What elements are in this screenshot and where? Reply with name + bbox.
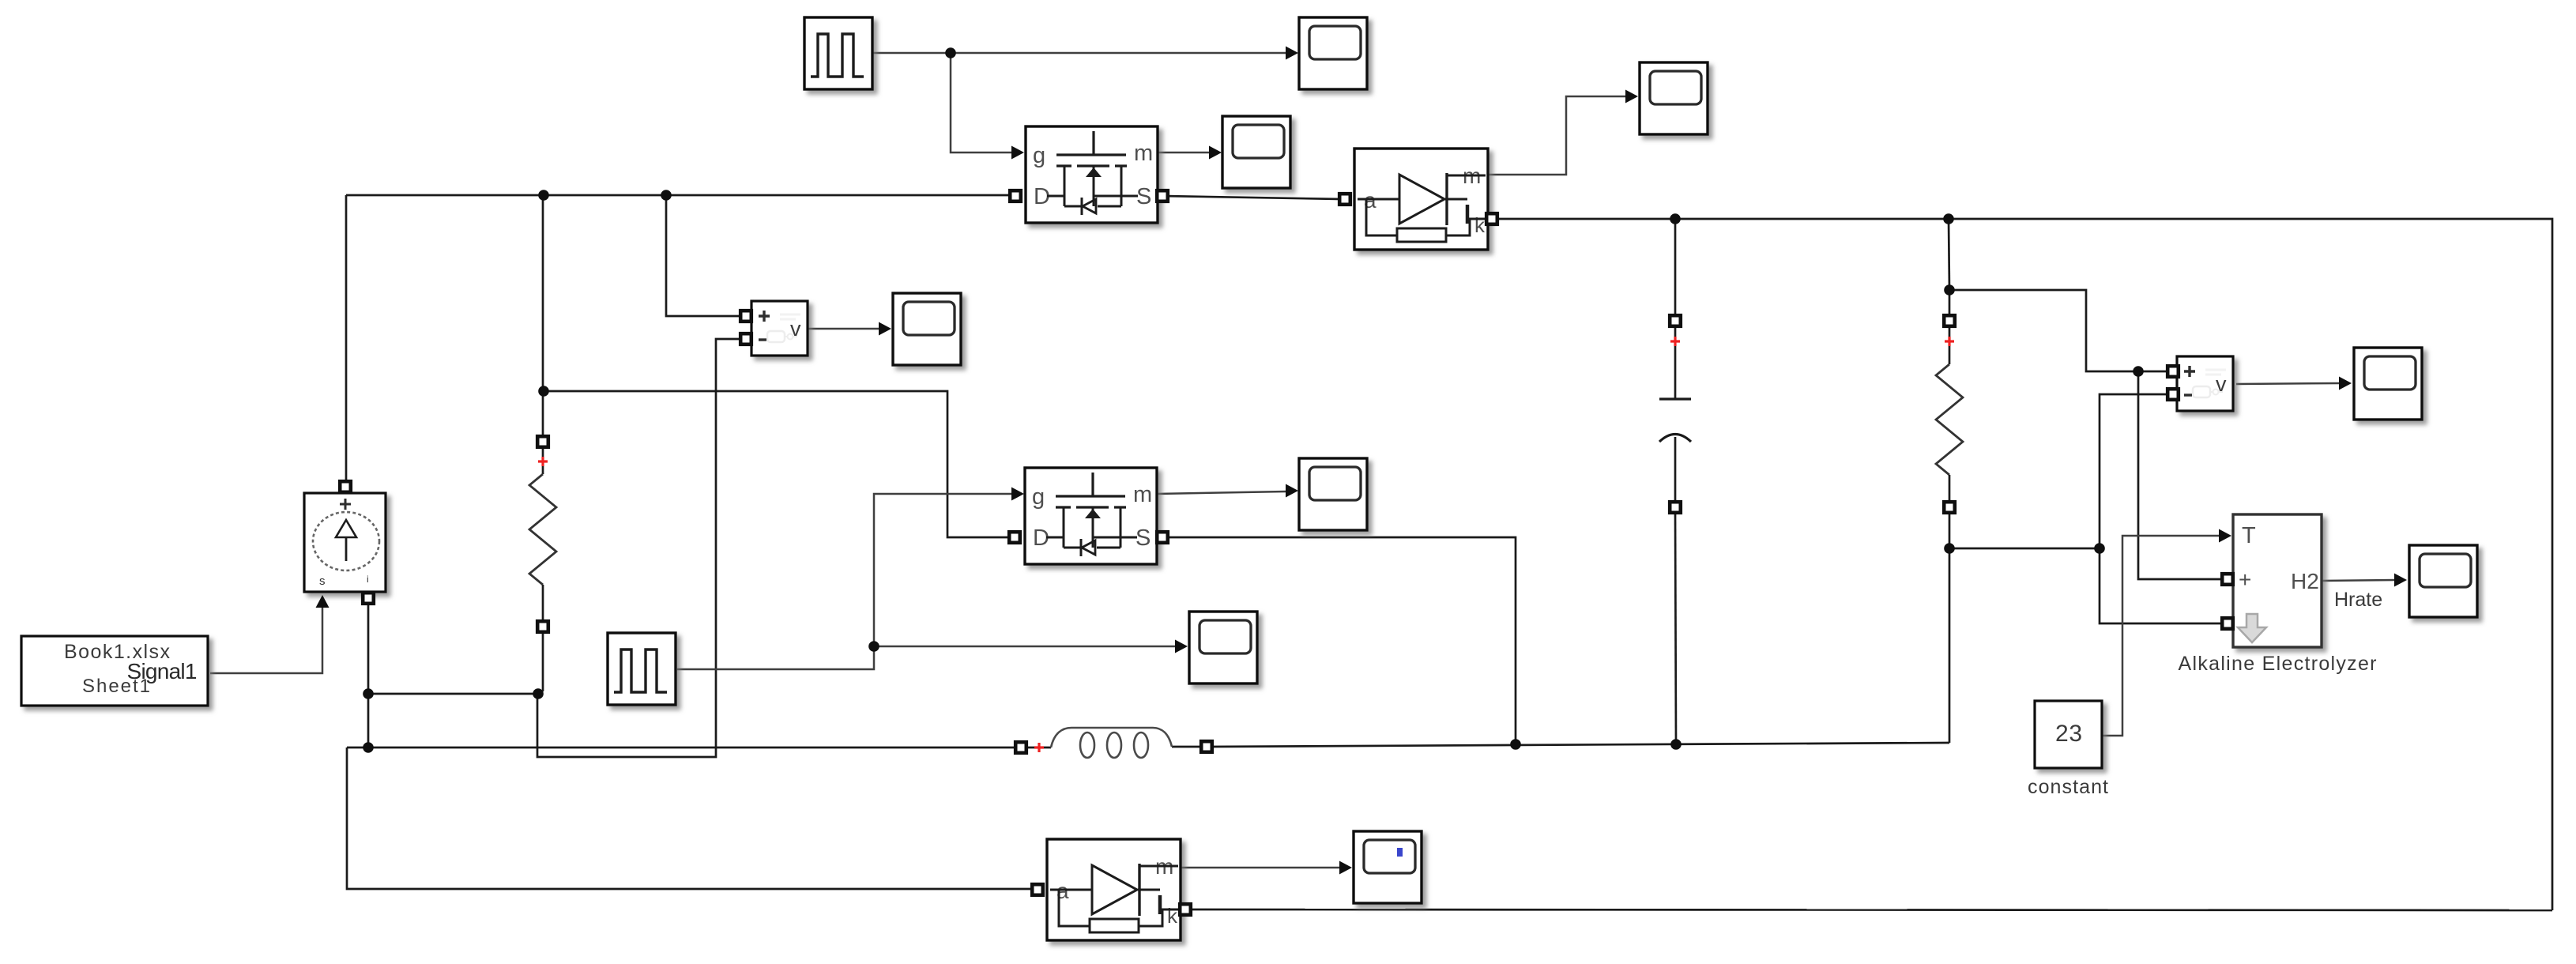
svg-text:H2: H2	[2291, 569, 2319, 593]
svg-text:23: 23	[2055, 721, 2082, 747]
svg-text:Hrate: Hrate	[2334, 589, 2382, 611]
svg-text:s: s	[319, 574, 326, 588]
svg-text:+: +	[2239, 567, 2251, 592]
svg-text:constant: constant	[2028, 776, 2108, 798]
svg-text:Alkaline Electrolyzer: Alkaline Electrolyzer	[2179, 653, 2377, 675]
svg-text:T: T	[2242, 523, 2256, 548]
svg-text:Signal1: Signal1	[127, 659, 198, 683]
svg-text:i: i	[367, 574, 369, 585]
